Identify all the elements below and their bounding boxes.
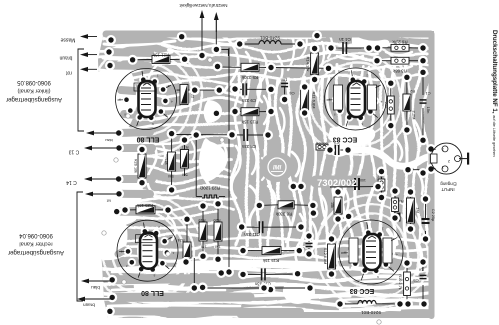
wire center col: [195, 135, 197, 197]
svg-text:Netztrafo,Netzwelligkeit: Netztrafo,Netzwelligkeit: [179, 3, 228, 8]
channel: [103, 52, 172, 59]
svg-text:9060-096.04: 9060-096.04: [18, 232, 52, 238]
pad: [295, 39, 305, 49]
channel: [104, 41, 175, 45]
pad: [377, 193, 387, 203]
pad: [254, 200, 264, 210]
svg-text:ELL 80: ELL 80: [141, 289, 164, 296]
wire long vertical upper: [228, 48, 230, 135]
wire C7 t: [308, 236, 310, 242]
wire R18 b: [171, 171, 173, 190]
pad: [137, 145, 147, 155]
svg-text:5M: 5M: [182, 173, 187, 177]
pad: [230, 84, 240, 94]
svg-text:R26 16k: R26 16k: [134, 159, 138, 173]
svg-text:C6: C6: [289, 91, 295, 96]
channel: [168, 216, 175, 240]
wire R26 b: [141, 178, 143, 187]
resistor R16 small: [316, 144, 328, 150]
bottom trace channels: [96, 238, 447, 320]
svg-text:C5: C5: [413, 278, 419, 283]
pad: [300, 108, 310, 118]
wire R15 l: [243, 250, 262, 252]
svg-text:C8 33n: C8 33n: [241, 144, 256, 149]
pad: [106, 35, 116, 45]
trace C14: [119, 175, 152, 183]
pad: [107, 292, 117, 302]
svg-text:R12 6,8M: R12 6,8M: [323, 248, 327, 264]
pad: [266, 63, 276, 73]
channel: [322, 196, 327, 224]
wire C10 r: [266, 273, 298, 275]
wire R25 r: [155, 209, 168, 211]
resistor R20: [214, 222, 222, 241]
resistor R24: [183, 242, 191, 258]
channel: [206, 140, 214, 186]
pad: [390, 213, 400, 223]
wire R13 l: [235, 111, 241, 113]
channel: [262, 158, 267, 180]
channel: [232, 146, 241, 198]
resistor R26: [138, 154, 146, 178]
svg-text:R10 2,7k: R10 2,7k: [398, 274, 402, 289]
svg-text:C1: C1: [425, 91, 431, 96]
wire R6 r: [409, 47, 423, 49]
channel: [292, 152, 299, 176]
pad: [386, 121, 396, 131]
channel: [300, 36, 307, 58]
wire R17 t: [184, 140, 186, 150]
pad: [326, 43, 336, 53]
wire to V3: [271, 67, 329, 70]
svg-text:15n: 15n: [426, 107, 431, 114]
wire C7 b: [308, 248, 310, 254]
pad: [419, 299, 429, 309]
wire C12 row: [330, 186, 378, 188]
pad: [418, 135, 428, 145]
capacitor C1: [420, 99, 427, 104]
pad: [333, 187, 343, 197]
capacitor C12: [354, 178, 360, 190]
capacitor C11: [259, 221, 264, 233]
svg-text:1M: 1M: [201, 245, 206, 249]
trace right edge bus: [429, 34, 435, 316]
channel: [312, 222, 317, 250]
resistor R9: [387, 96, 394, 114]
pad: [263, 130, 273, 140]
pad: [190, 85, 200, 95]
svg-text:9060-098.05: 9060-098.05: [16, 79, 50, 85]
pad: [237, 222, 247, 232]
svg-text:220: 220: [384, 102, 388, 108]
channel: [314, 42, 325, 96]
channel: [102, 68, 146, 73]
svg-text:Ausgangsübertrager: Ausgangsübertrager: [6, 96, 62, 103]
tube V2 ELL80: [117, 220, 178, 281]
wire long vertical lower: [228, 135, 230, 272]
wire R1 t: [410, 192, 412, 198]
wire R7 b: [381, 191, 383, 197]
pad: [377, 167, 387, 177]
channel: [112, 270, 220, 273]
wire L2 l: [340, 303, 358, 305]
wire mid horizontal: [172, 134, 232, 136]
svg-text:15k: 15k: [330, 202, 334, 208]
pad: [310, 44, 320, 54]
pad: [114, 174, 124, 184]
wire R13 r: [259, 111, 271, 113]
wire R20 t: [217, 204, 219, 222]
pocket left of V1: [96, 69, 137, 132]
svg-text:R5 330k: R5 330k: [241, 75, 258, 80]
trace V1 pin2: [124, 114, 150, 116]
wire to bottom bus: [193, 258, 195, 288]
channel: [288, 36, 294, 70]
capacitor C3: [335, 145, 340, 155]
channel: [396, 140, 402, 160]
pad: [406, 224, 416, 234]
arrow rot 2: [85, 192, 118, 197]
pad: [343, 145, 353, 155]
wire R19 b: [202, 241, 204, 256]
input connector: [431, 143, 470, 174]
wire C9 l: [235, 88, 242, 90]
channel: [222, 142, 227, 170]
wire mains arrow 2: [215, 14, 217, 49]
wire R10 b: [406, 296, 408, 305]
svg-text:R14 15k: R14 15k: [306, 57, 311, 72]
wire R8 r: [294, 204, 313, 207]
resistor R23: [202, 195, 219, 198]
svg-text:blau: blau: [91, 285, 100, 290]
pocket C3: [327, 141, 352, 157]
wire L2 r: [376, 303, 400, 305]
pad: [402, 72, 412, 82]
svg-text:2,2M: 2,2M: [412, 111, 417, 120]
svg-text:302391: 302391: [316, 142, 327, 146]
wire R10 t: [406, 263, 408, 272]
wire R21 right: [170, 58, 185, 60]
svg-text:C2 25µ: C2 25µ: [431, 209, 435, 222]
tube V3 ECC83: [325, 68, 387, 130]
pad: [373, 43, 383, 53]
svg-text:10n: 10n: [281, 78, 288, 83]
pad: [167, 185, 177, 195]
pad: [333, 214, 343, 224]
wire R14 b: [314, 75, 316, 80]
svg-text:C4 1n: C4 1n: [339, 37, 351, 42]
resistor R12: [328, 244, 336, 269]
channel: [386, 52, 412, 55]
pad: [112, 207, 122, 217]
wire R15 r: [281, 250, 299, 252]
pad: [227, 130, 237, 140]
pad: [300, 82, 310, 92]
pocket left of V2: [93, 211, 127, 260]
pad: [213, 254, 223, 264]
resistor R4: [392, 198, 399, 212]
wire R24 t: [186, 219, 188, 242]
trace blau1: [119, 132, 150, 133]
pad: [310, 75, 320, 85]
pad: [418, 67, 428, 77]
trace V1 pin: [121, 90, 148, 92]
channel: [380, 74, 386, 110]
channel: [250, 294, 350, 298]
wire R5 left: [218, 66, 242, 68]
pad: [403, 299, 413, 309]
notch top right: [352, 34, 389, 50]
pad: [114, 143, 124, 153]
coil L1 9240-B01: [259, 41, 281, 44]
wire R23 l: [196, 196, 202, 198]
wire: [431, 168, 436, 170]
pad: [230, 107, 240, 117]
pad: [266, 107, 276, 117]
diode D1: [394, 213, 401, 222]
channel: [168, 50, 212, 56]
trace top edge bus: [106, 31, 431, 38]
pad: [421, 194, 431, 204]
wire C10 l: [243, 273, 261, 275]
wire C3 r: [340, 149, 348, 151]
svg-text:braun: braun: [83, 303, 95, 308]
wire R24 b: [186, 258, 188, 262]
wire R8 l: [259, 204, 278, 207]
copper under logo: [260, 152, 294, 182]
pad: [180, 54, 190, 64]
channel: [112, 288, 225, 291]
trace braun: [109, 52, 150, 53]
pad: [406, 187, 416, 197]
wire R5 right: [259, 66, 271, 68]
arrow C13: [84, 146, 118, 151]
resistor R19b: [334, 197, 342, 214]
channel: [162, 144, 165, 164]
channel: [154, 196, 178, 199]
pad: [197, 51, 207, 61]
svg-text:braun: braun: [59, 55, 72, 61]
wire R12 t: [331, 239, 333, 244]
wire R9 t: [390, 83, 392, 96]
channel: [252, 146, 257, 174]
resistor R3: [391, 57, 409, 64]
channel: [340, 308, 400, 311]
pad: [198, 251, 208, 261]
wire C5 b: [422, 285, 424, 304]
channel: [416, 170, 423, 194]
svg-text:5M: 5M: [168, 174, 173, 178]
channel: [278, 56, 283, 84]
svg-text:Eingang: Eingang: [440, 182, 457, 187]
bracket transformer 1: [78, 49, 84, 131]
wire C11 l: [242, 226, 259, 228]
pad: [421, 234, 431, 244]
pad: [296, 222, 306, 232]
pad: [294, 246, 304, 256]
svg-text:R6 2,7k: R6 2,7k: [392, 40, 408, 45]
pad: [373, 182, 383, 192]
resistor R17: [181, 150, 189, 169]
wire mains arrow 1: [201, 13, 203, 56]
pocket right of V1: [204, 100, 222, 123]
wire R23 r: [219, 196, 225, 198]
trace Masse: [111, 38, 160, 40]
svg-text:INPUT: INPUT: [441, 187, 454, 192]
channel: [192, 142, 195, 162]
arrow rot top: [80, 67, 97, 72]
pad: [372, 56, 382, 66]
pad: [288, 181, 298, 191]
channel: [250, 310, 370, 314]
wire C2 t: [425, 200, 427, 218]
wire R20 b: [217, 241, 219, 259]
channel: [268, 186, 275, 210]
tube V1 ELL80: [116, 69, 177, 130]
arrow braun top: [80, 52, 97, 57]
pad: [238, 269, 248, 279]
wire L1 right: [281, 43, 300, 45]
wire R3 l: [377, 60, 391, 62]
pad: [335, 299, 345, 309]
pad: [327, 234, 337, 244]
wire C6 lead: [284, 87, 286, 99]
tube surrounding channels: [90, 43, 427, 308]
pad: [304, 231, 314, 241]
svg-text:9240-B01: 9240-B01: [260, 36, 280, 41]
svg-text:R18: R18: [164, 158, 168, 165]
svg-text:R19: R19: [199, 218, 206, 222]
channel: [264, 96, 269, 124]
capacitor C2: [422, 218, 430, 224]
pad: [293, 269, 303, 279]
trace V2 pin: [118, 250, 125, 254]
resistor R7: [378, 179, 385, 191]
channel: [222, 36, 238, 92]
white band y266: [180, 264, 330, 266]
pad: [325, 145, 335, 155]
channel: [148, 144, 157, 192]
pad: [167, 129, 177, 139]
wire C4 l: [331, 47, 342, 49]
wire R25 l: [125, 209, 136, 211]
wire R26 t: [141, 145, 143, 154]
svg-text:(linker Kanal): (linker Kanal): [17, 88, 50, 94]
channel: [327, 78, 332, 118]
pad: [312, 31, 322, 41]
pad: [191, 130, 201, 140]
wire R19 t: [202, 206, 204, 222]
capacitor C6: [281, 83, 288, 88]
capacitor C9: [242, 83, 247, 95]
wire C1 b: [422, 108, 424, 140]
arrow blau 1: [86, 131, 118, 136]
svg-text:1M: 1M: [215, 245, 220, 249]
pad: [120, 205, 130, 215]
svg-text:Druckschaltungsplatte NF 1, au: Druckschaltungsplatte NF 1, auf die Löts…: [491, 30, 498, 157]
wire R18 t: [171, 134, 173, 152]
channel: [242, 52, 251, 102]
svg-text:rechter Kanal: rechter Kanal: [19, 241, 52, 247]
wire: [431, 148, 436, 150]
pad: [216, 268, 226, 278]
wire C8 r: [248, 134, 268, 136]
pad: [390, 186, 400, 196]
channel: [344, 188, 349, 216]
resistor R21: [152, 56, 170, 64]
wire C2 b: [425, 231, 427, 238]
svg-text:C11 33n: C11 33n: [244, 232, 260, 237]
resistor R14: [311, 53, 319, 75]
svg-text:Masse: Masse: [60, 37, 75, 43]
channel: [296, 214, 305, 266]
trace R25 in: [122, 210, 150, 211]
trace lug: [117, 208, 146, 216]
pad: [114, 189, 124, 199]
channel: [147, 64, 158, 90]
channel: [250, 186, 258, 234]
pad: [238, 246, 248, 256]
svg-text:R21 15k: R21 15k: [152, 53, 169, 58]
pad: [181, 257, 191, 267]
pad: [304, 249, 314, 259]
resistor R18: [168, 152, 176, 171]
channel: [388, 230, 394, 262]
arrow braun bottom: [77, 297, 113, 302]
vias: [126, 114, 130, 118]
trace bottom edge bus: [240, 312, 429, 318]
pad: [418, 257, 428, 267]
svg-text:C 14: C 14: [66, 179, 77, 185]
wire R12 b: [331, 269, 333, 274]
svg-text:ECC 83: ECC 83: [350, 287, 375, 294]
wire R11 t: [304, 87, 306, 90]
pad: [198, 282, 208, 292]
pad: [364, 43, 374, 53]
capacitor C4: [342, 42, 347, 54]
pad: [308, 208, 318, 218]
wire R6 l: [378, 47, 391, 49]
pad: [418, 168, 428, 178]
wire C9 r: [247, 88, 271, 90]
capacitor C8: [243, 129, 248, 141]
capacitor C10: [261, 268, 266, 280]
pad: [182, 214, 192, 224]
wire arrow2 to center: [216, 49, 228, 56]
resistor R2: [403, 94, 411, 111]
channel: [370, 53, 378, 55]
trace C13: [119, 144, 152, 152]
channel: [108, 304, 240, 307]
wire C11 r: [264, 226, 302, 228]
channel: [337, 56, 363, 59]
pad: [280, 95, 290, 105]
wire R4 t: [394, 191, 396, 198]
resistor R25: [136, 206, 155, 214]
channel: [414, 120, 421, 146]
resistor R5: [241, 63, 259, 71]
pad: [235, 39, 245, 49]
channel: [386, 66, 412, 69]
channel: [342, 298, 396, 301]
pad: [426, 164, 436, 174]
svg-text:ECC 83: ECC 83: [333, 136, 358, 143]
svg-text:C 13: C 13: [69, 149, 80, 155]
wire C4 r: [347, 47, 369, 49]
svg-text:1n: 1n: [419, 268, 423, 273]
trace braun2: [112, 293, 250, 302]
resistor R6: [391, 44, 409, 51]
